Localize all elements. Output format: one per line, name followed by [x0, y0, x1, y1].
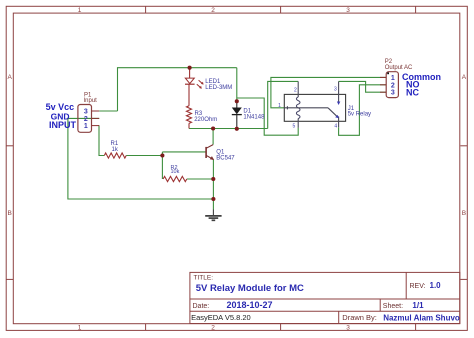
resistor R3	[187, 106, 192, 124]
junction node D1 anode at rail	[235, 127, 239, 131]
svg-text:REV:: REV:	[410, 283, 426, 290]
wire R2 to emitter column	[187, 178, 214, 180]
frame row tick right 2	[460, 278, 467, 280]
svg-text:2: 2	[294, 87, 297, 93]
frame column tick top 3	[415, 6, 417, 13]
svg-text:2: 2	[84, 116, 88, 123]
svg-text:3: 3	[346, 324, 350, 331]
svg-text:1: 1	[78, 7, 82, 14]
svg-text:10k: 10k	[171, 169, 180, 175]
svg-text:1: 1	[78, 324, 82, 331]
LED LED1	[185, 68, 204, 89]
svg-text:Sheet:: Sheet:	[383, 303, 403, 310]
svg-text:3: 3	[391, 90, 395, 97]
svg-text:NC: NC	[406, 87, 419, 97]
svg-text:A: A	[8, 74, 13, 81]
svg-text:2: 2	[391, 82, 395, 89]
wire collector riser to relay pin2	[268, 81, 299, 128]
svg-text:5V Relay Module for MC: 5V Relay Module for MC	[196, 283, 304, 294]
title block REV divider	[405, 272, 407, 299]
frame column tick bottom 1	[145, 324, 147, 331]
svg-text:P2: P2	[385, 59, 393, 65]
frame row tick left 2	[6, 278, 13, 280]
wire relay pin4 to P2 pin2	[339, 85, 387, 136]
wire collector rail	[189, 128, 268, 130]
title block outline	[190, 272, 460, 323]
svg-text:EasyEDA V5.8.20: EasyEDA V5.8.20	[191, 313, 251, 322]
svg-text:3: 3	[84, 109, 88, 116]
svg-text:220Ohm: 220Ohm	[194, 117, 217, 123]
junction node LED anode at top rail	[188, 66, 192, 70]
svg-text:2018-10-27: 2018-10-27	[227, 300, 273, 310]
title block row line 2	[190, 310, 460, 312]
wire R1 to node B	[126, 155, 162, 157]
svg-text:Input: Input	[84, 98, 98, 104]
wire P1 pin1 down to R1	[99, 126, 104, 156]
svg-text:1N4148: 1N4148	[243, 115, 265, 121]
svg-text:5v Relay: 5v Relay	[348, 112, 371, 118]
wire relay pin1 common to P2 pin1	[271, 77, 386, 107]
frame column tick bottom 3	[415, 324, 417, 331]
wire node B to Q1 base	[162, 151, 206, 153]
svg-text:4: 4	[334, 124, 337, 130]
wire 5V top rail	[118, 68, 237, 111]
diode D1	[232, 101, 242, 129]
title block row line 1	[190, 298, 460, 300]
frame row tick left 1	[6, 145, 13, 147]
svg-text:1.0: 1.0	[430, 281, 442, 290]
wire Q1 collector up to rail	[212, 129, 214, 145]
resistor R2	[163, 176, 187, 181]
ground	[205, 210, 221, 221]
svg-text:1: 1	[278, 103, 281, 109]
connector P2	[380, 72, 398, 98]
title block Sheet divider	[379, 299, 381, 311]
transistor Q1	[206, 145, 214, 160]
wire GND from P1 pin2 left and down to bottom rail	[68, 118, 214, 199]
svg-text:2: 2	[211, 324, 215, 331]
svg-text:A: A	[462, 74, 467, 81]
svg-text:LED1: LED1	[205, 79, 221, 85]
junction node R2 emitter	[211, 177, 215, 181]
svg-text:TITLE:: TITLE:	[194, 275, 214, 282]
wire ground stub	[212, 199, 214, 210]
title block DrawnBy divider	[338, 311, 340, 323]
junction node emitter ground rail	[211, 197, 215, 201]
wire P1 pin3 to riser	[99, 110, 117, 112]
svg-text:R3: R3	[195, 111, 203, 117]
frame row tick right 1	[460, 145, 467, 147]
svg-text:Date:: Date:	[193, 303, 210, 310]
frame column tick top 2	[280, 6, 282, 13]
relay J1	[278, 81, 345, 129]
wire D1 top connection	[236, 68, 238, 102]
wire 5V jog to relay pin5	[237, 98, 298, 135]
connector P1	[78, 105, 99, 133]
svg-text:BC547: BC547	[216, 155, 235, 161]
svg-text:INPUT: INPUT	[49, 120, 77, 130]
svg-text:1: 1	[84, 123, 88, 130]
svg-text:2: 2	[211, 7, 215, 14]
svg-text:B: B	[462, 210, 466, 217]
svg-text:3: 3	[346, 7, 350, 14]
frame column tick bottom 2	[280, 324, 282, 331]
wire node B jog vertical	[161, 152, 163, 179]
frame column tick top 1	[145, 6, 147, 13]
svg-text:5: 5	[293, 124, 296, 130]
wire LED to R3 column	[188, 84, 190, 106]
resistor R1	[104, 153, 126, 158]
svg-text:1/1: 1/1	[412, 301, 424, 310]
svg-text:1: 1	[391, 75, 395, 82]
svg-text:B: B	[8, 210, 12, 217]
junction node collector rail at Q1	[211, 126, 215, 130]
junction node D1 cathode	[235, 99, 239, 103]
svg-text:Output AC: Output AC	[385, 65, 413, 71]
junction node R1 R2 base	[160, 153, 164, 157]
svg-text:Nazmul Alam Shuvo: Nazmul Alam Shuvo	[383, 313, 460, 322]
wire Q1 emitter down to ground rail	[212, 160, 214, 200]
svg-text:Drawn By:: Drawn By:	[342, 313, 377, 322]
svg-text:3: 3	[334, 87, 337, 93]
svg-text:1k: 1k	[112, 147, 119, 153]
svg-text:LED-3MM: LED-3MM	[205, 85, 232, 91]
wire relay pin3 to P2 pin3	[339, 81, 387, 92]
